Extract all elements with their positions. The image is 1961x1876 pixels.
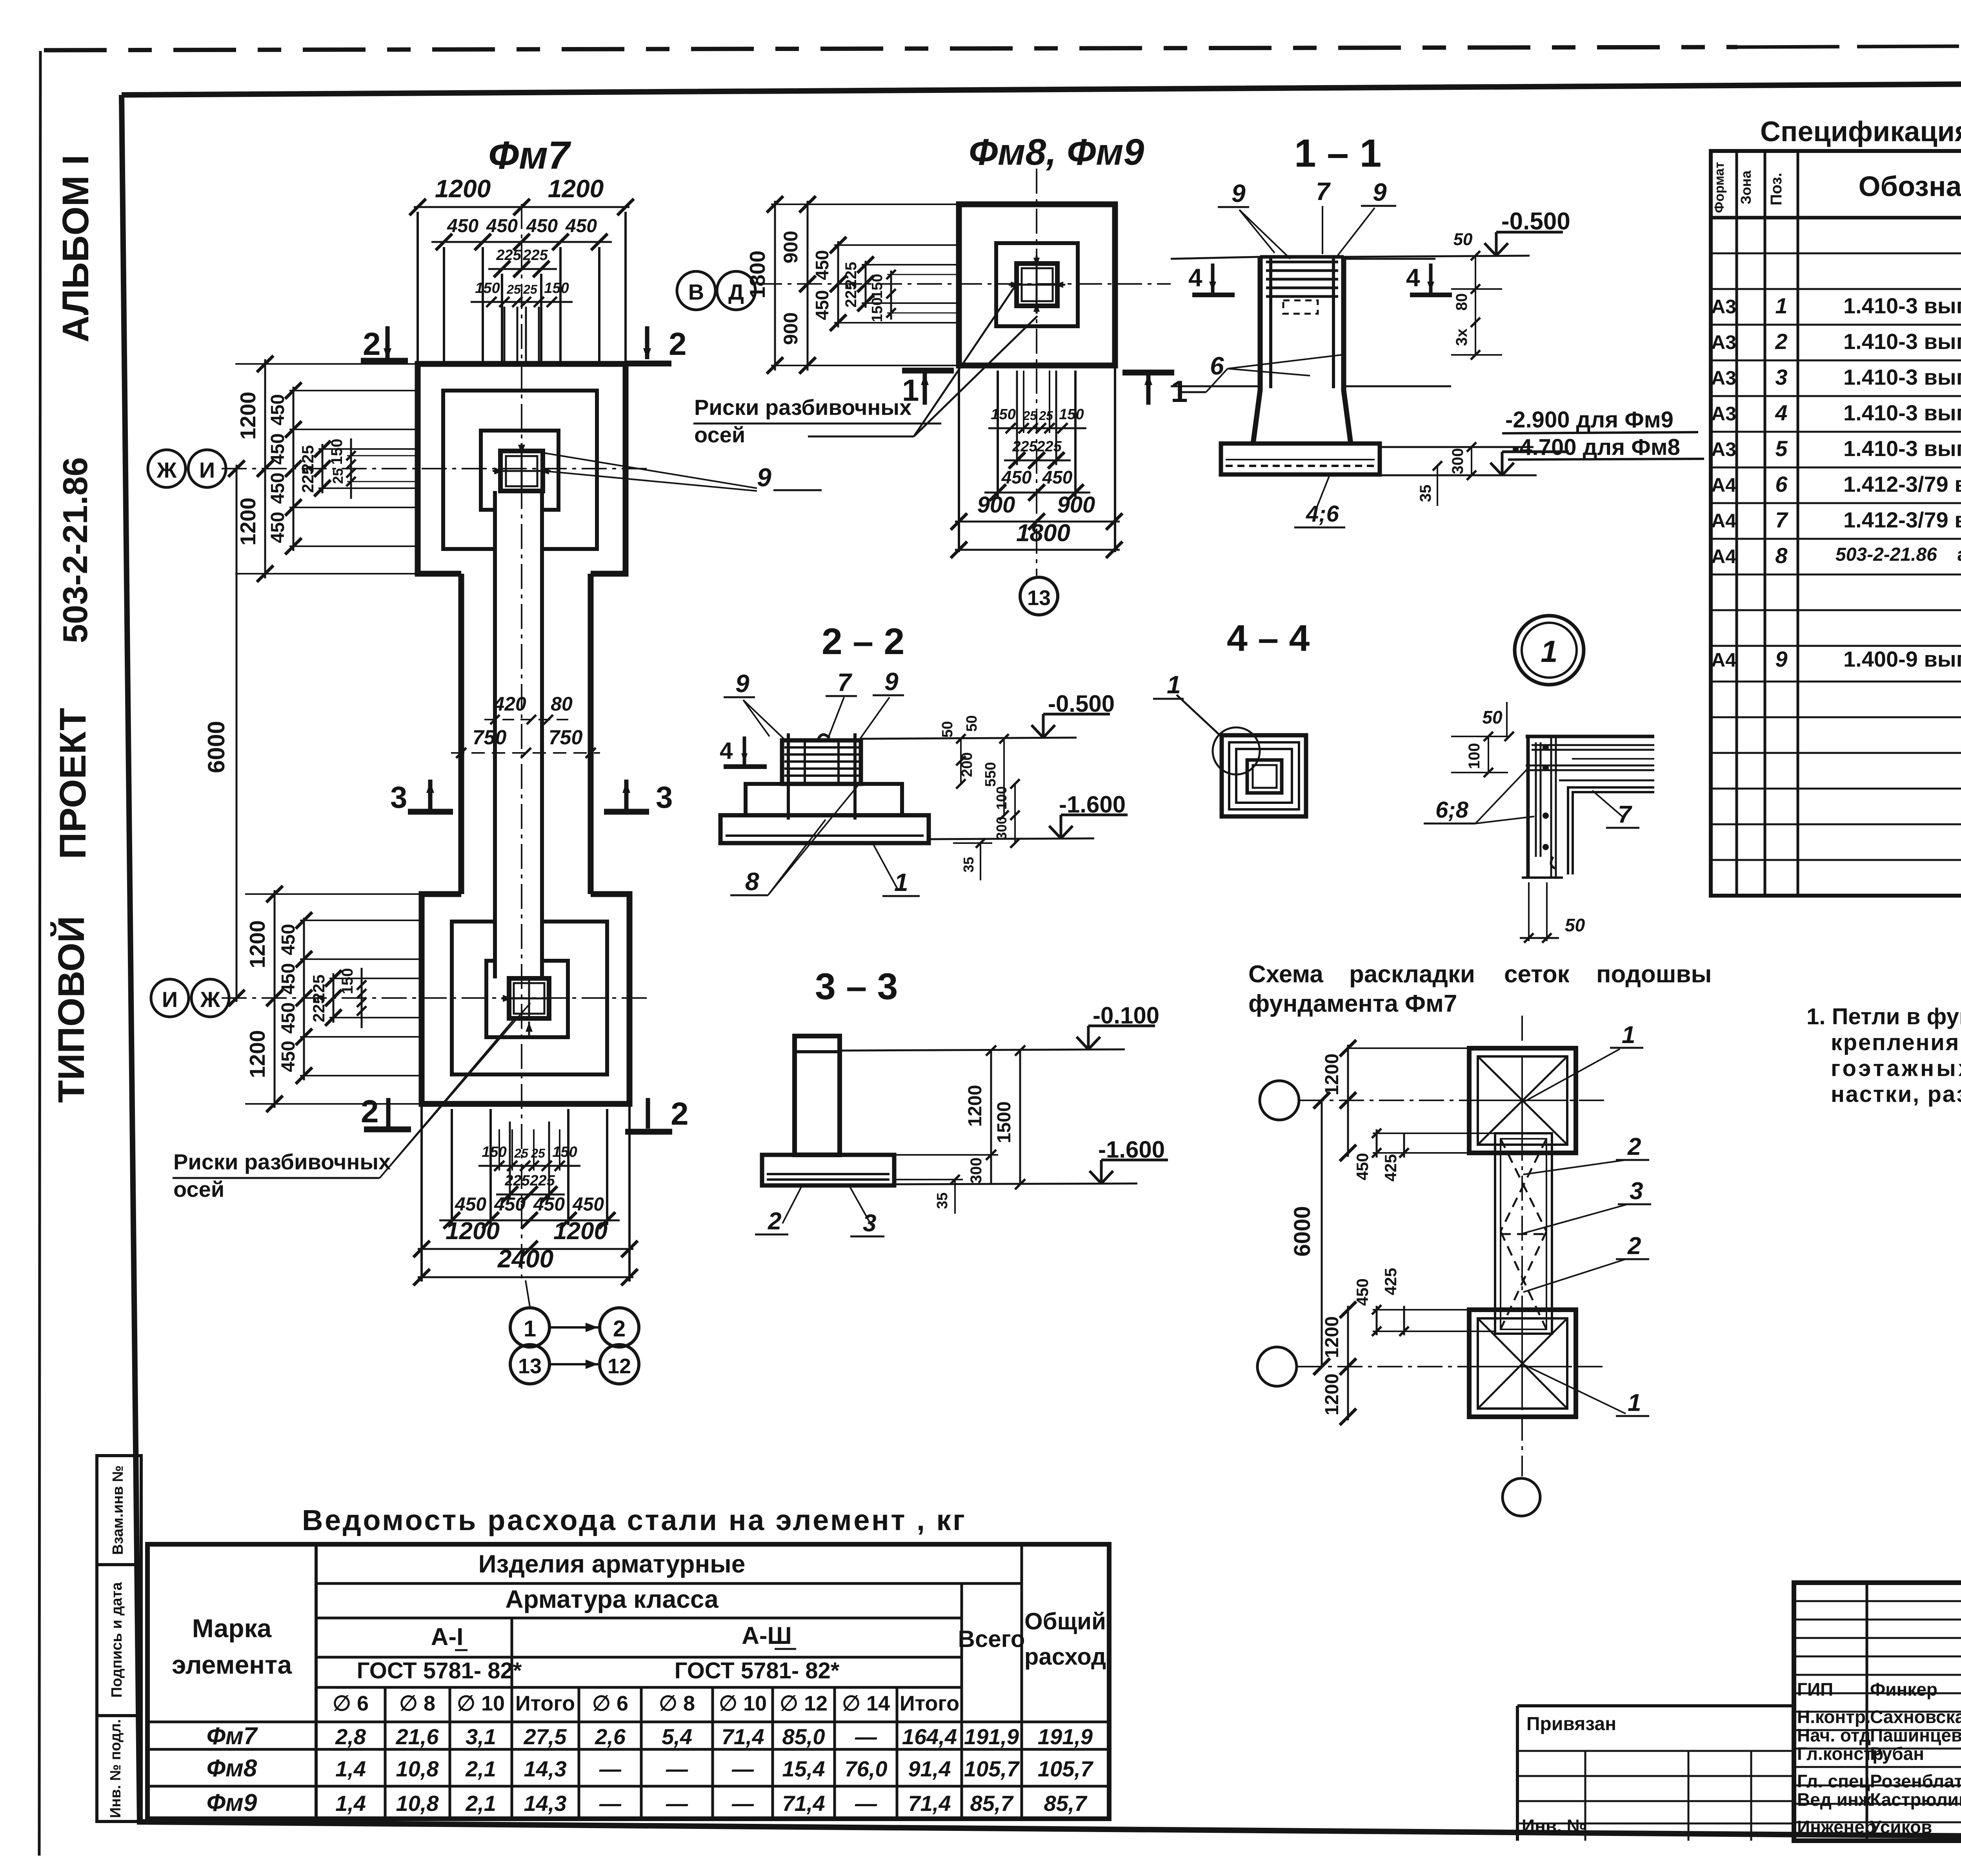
svg-text:85,0: 85,0 [782,1724,825,1749]
left dim chain 1200/1200 top pad [264,359,266,578]
axis circle И bottom [151,979,189,1017]
svg-text:9: 9 [1775,647,1787,671]
svg-text:ТИПОВОЙ: ТИПОВОЙ [50,916,92,1103]
svg-text:900: 900 [780,312,802,345]
svg-text:∅ 6: ∅ 6 [592,1692,628,1715]
svg-text:Обозначение: Обозначение [1859,171,1961,202]
ведомость header Марка элемента [315,1544,318,1819]
node 1 detail circle [1515,616,1584,685]
svg-text:3: 3 [1775,365,1787,389]
svg-text:9: 9 [735,669,749,698]
svg-text:2: 2 [1627,1133,1641,1160]
svg-text:1200: 1200 [548,175,604,203]
svg-text:450: 450 [278,924,299,955]
3-3 dim 35 [950,1175,960,1184]
margin box Подпись и дата [97,1565,141,1716]
3-3 stem outline [795,1036,840,1155]
leader to Фм8 column [808,436,914,438]
svg-text:—: — [731,1756,754,1781]
svg-text:13: 13 [518,1354,542,1378]
node 1 dim 100 left [1488,736,1489,773]
svg-text:∅ 8: ∅ 8 [399,1692,435,1715]
svg-text:А3: А3 [1711,367,1736,389]
extension lines below Фм8 pad [958,365,960,552]
svg-text:Финкер: Финкер [1870,1679,1937,1700]
svg-text:191,9: 191,9 [964,1724,1019,1749]
svg-text:Фм9: Фм9 [207,1789,257,1816]
svg-text:1.412-3/79 вып.3: 1.412-3/79 вып.3 [1843,507,1961,532]
svg-text:1: 1 [1167,671,1181,699]
svg-text:3 – 3: 3 – 3 [815,966,898,1007]
svg-text:25: 25 [514,1146,529,1160]
Фм7 bottom pad middle step [452,922,607,1074]
svg-text:—: — [855,1724,877,1749]
svg-text:50: 50 [939,721,956,738]
svg-text:осей: осей [173,1177,224,1202]
schema dim chain 1200 top [1347,1045,1349,1157]
svg-text:450: 450 [455,1194,486,1215]
svg-text:2: 2 [363,326,381,362]
2-2 elevation -1.600 [929,838,1094,839]
svg-text:15,4: 15,4 [782,1756,825,1781]
1-1 dim 3x80 right [1475,256,1476,355]
ведомость table outer [147,1544,1109,1819]
svg-text:А3: А3 [1711,403,1736,425]
2-2 bottom slab [720,815,929,843]
svg-text:750: 750 [473,726,507,749]
svg-text:-2.900 для Фм9: -2.900 для Фм9 [1505,407,1674,433]
svg-text:1500: 1500 [994,1102,1015,1143]
svg-text:8: 8 [1775,543,1788,568]
1-1 dim 35 right [1433,461,1442,471]
svg-text:2,1: 2,1 [465,1756,496,1781]
Фм7 column shaft lines [493,491,497,978]
svg-text:—: — [599,1756,622,1781]
dim 1800 below Фм8 [955,549,1120,551]
svg-text:85,7: 85,7 [1044,1791,1088,1816]
2-2 pedestal block with mesh [782,740,861,784]
specification table grid [1711,151,1961,896]
svg-text:1,4: 1,4 [335,1756,366,1781]
svg-text:ПРОЕКТ: ПРОЕКТ [52,708,94,859]
svg-text:450: 450 [267,473,288,504]
stamp left grid [1866,1583,1868,1841]
svg-text:200: 200 [959,752,975,777]
svg-text:300: 300 [1449,448,1466,474]
svg-text:100: 100 [993,786,1010,810]
svg-text:27,5: 27,5 [524,1724,567,1749]
stamp outer [1794,1583,1961,1841]
svg-text:1200: 1200 [435,175,491,203]
axis circle 13 below Фм8 [1020,577,1058,615]
svg-text:71,4: 71,4 [908,1791,951,1816]
axis link arrow 1-2 [551,1326,598,1329]
svg-text:2: 2 [613,1316,626,1342]
dim 750 750 on stem [451,752,600,754]
svg-text:2400: 2400 [497,1245,553,1273]
3-3 elevation -1.600 [896,1183,1137,1184]
svg-text:25: 25 [1022,409,1037,423]
dim 450 450 below Фм8 [984,492,1090,494]
svg-text:Спецификация: Спецификация [1760,116,1961,147]
svg-text:элемента: элемента [172,1650,292,1679]
svg-text:450: 450 [486,216,518,236]
svg-text:900: 900 [977,492,1015,518]
svg-text:1.412-3/79 вып.3: 1.412-3/79 вып.3 [1843,472,1961,496]
2-2 vertical bars [787,733,790,820]
ведомость header diameters [384,1687,387,1819]
3-3 footing outline [762,1155,894,1185]
svg-text:450: 450 [447,216,478,236]
svg-text:Подпись и дата: Подпись и дата [109,1582,125,1698]
svg-text:503-2-21.86: 503-2-21.86 [1835,544,1937,565]
svg-text:225: 225 [1012,438,1037,455]
svg-text:420: 420 [493,693,526,715]
node 1 vertical bars 6;8 [1526,736,1530,878]
extension lines from top dims to pad [417,212,419,364]
svg-text:1200: 1200 [553,1218,608,1245]
Фм8 pad axis horizontal [757,283,1171,285]
svg-text:9: 9 [757,463,771,492]
node 1 corner bar 7 [1568,787,1654,874]
1-1 dashed anchor box [1283,300,1318,314]
svg-text:А4: А4 [1711,545,1736,567]
svg-text:раскладки: раскладки [1349,961,1475,988]
svg-text:Розенблат: Розенблат [1870,1771,1961,1791]
svg-text:Н.контр.: Н.контр. [1797,1707,1871,1727]
4-4 leader to label 1 [1177,695,1223,738]
svg-text:450: 450 [812,250,832,280]
svg-text:1.410-3 вып.1: 1.410-3 вып.1 [1843,293,1961,318]
svg-text:подошвы: подошвы [1596,961,1712,988]
svg-text:Изделия арматурные: Изделия арматурные [478,1550,746,1578]
node 1 mesh horizontal lines [1526,735,1654,738]
svg-text:71,4: 71,4 [782,1791,825,1816]
svg-text:Итого: Итого [900,1692,959,1715]
svg-text:Риски разбивочных: Риски разбивочных [173,1149,391,1174]
ведомость header Арматура класса [316,1617,962,1620]
svg-text:1. Петли в фундаментах мо: 1. Петли в фундаментах монолитных предус… [1806,1004,1961,1029]
svg-text:6000: 6000 [1290,1206,1315,1256]
dim 450x4 above top pad [431,241,612,243]
svg-text:25: 25 [531,1146,546,1160]
svg-text:Ж: Ж [156,458,177,482]
1-1 dim 300 right [1471,447,1472,475]
svg-text:25: 25 [506,282,521,296]
3-3 elevation -0.100 [842,1049,1125,1051]
привязан grid [1517,1750,1794,1752]
schema axis horizontal bottom [1297,1366,1604,1367]
svg-text:Зона: Зона [1738,170,1754,204]
svg-text:АЛЬБОМ I: АЛЬБОМ I [55,155,96,343]
svg-text:В: В [688,280,704,304]
svg-text:8: 8 [745,867,759,896]
dim 1200 1200 below bottom pad [418,1248,633,1250]
schema axis circle bottom [1503,1478,1540,1516]
Фм7 bottom pad axis horizontal [222,997,651,999]
svg-text:4: 4 [720,738,733,764]
svg-text:А-Ш: А-Ш [742,1622,792,1649]
svg-text:150: 150 [552,1144,577,1160]
svg-text:3: 3 [656,780,673,814]
ведомость data rows [147,1721,1109,1723]
svg-text:крепления к ним анкерных: крепления к ним анкерных балок при монта… [1831,1030,1961,1055]
svg-text:2,6: 2,6 [595,1724,626,1749]
node 1 dim 50 top [1508,736,1508,752]
Фм7 bottom column section [509,978,549,1018]
axis circle Д [717,271,755,310]
svg-text:Усиков: Усиков [1870,1817,1932,1837]
svg-text:450: 450 [278,1041,299,1072]
1-1 mesh СН-7 in column head [1266,261,1338,264]
dim 150 25 25 150 below bottom pad [478,1165,580,1167]
section mark 3 right [604,809,649,815]
svg-text:1200: 1200 [1322,1374,1343,1416]
svg-text:50: 50 [964,715,980,732]
svg-text:1.410-3 вып.1: 1.410-3 вып.1 [1843,329,1961,354]
Фм7 bottom pad inner step [486,961,568,1037]
svg-text:25: 25 [330,468,346,484]
svg-text:∅ 6: ∅ 6 [333,1692,369,1715]
svg-text:Риски разбивочных: Риски разбивочных [694,395,911,420]
svg-text:450: 450 [812,290,832,320]
svg-text:150: 150 [328,439,346,465]
svg-text:1200: 1200 [1322,1316,1343,1358]
svg-text:1: 1 [902,373,919,407]
svg-text:1 – 1: 1 – 1 [1294,131,1381,175]
dim 225 225 below Фм8 [1004,460,1071,462]
svg-text:150: 150 [1059,406,1084,423]
schema top mesh square 1 [1469,1048,1576,1153]
svg-text:450: 450 [278,963,299,994]
svg-text:ГИП: ГИП [1797,1679,1833,1700]
axis circle Ж bottom [191,979,229,1017]
svg-text:Гл. спец.: Гл. спец. [1797,1771,1875,1791]
svg-text:13: 13 [1027,586,1051,610]
svg-text:7: 7 [1316,177,1331,205]
svg-text:450: 450 [1001,467,1032,487]
svg-text:300: 300 [993,816,1010,840]
svg-text:-0.500: -0.500 [1501,208,1570,235]
svg-text:450: 450 [1042,467,1073,487]
Фм7 bottom pad outer outline [422,894,629,1104]
svg-text:А4: А4 [1711,510,1736,532]
dim 150 25 25 150 below Фм8 [988,427,1086,429]
schema axis horizontal top [1299,1100,1604,1101]
svg-text:1.410-3 вып.1: 1.410-3 вып.1 [1843,436,1961,461]
svg-text:450: 450 [278,1002,299,1034]
schema dim 6000 [1321,1100,1323,1367]
svg-text:71,4: 71,4 [722,1724,764,1749]
svg-text:Инженер: Инженер [1797,1817,1876,1837]
svg-text:1200: 1200 [1322,1054,1343,1096]
svg-text:76,0: 76,0 [845,1756,888,1781]
svg-text:25: 25 [1039,409,1053,423]
left dim chain 150 Фм8 [890,271,892,320]
svg-text:4 – 4: 4 – 4 [1227,618,1310,659]
svg-text:ГОСТ 5781- 82*: ГОСТ 5781- 82* [675,1658,840,1683]
svg-text:900: 900 [780,231,802,263]
schema axis vertical [1521,1016,1523,1476]
svg-text:9: 9 [1232,179,1246,207]
dim 225 225 above top pad [488,268,557,270]
left extension lines bottom pad [245,893,422,895]
svg-text:3: 3 [390,780,407,814]
Фм8 column section [1017,264,1057,306]
svg-text:225: 225 [309,995,328,1022]
svg-text:1.410-3 вып.1: 1.410-3 вып.1 [1843,365,1961,389]
svg-text:гоэтажных колонн с по: гоэтажных колонн с помощью инвентарной о… [1831,1056,1961,1081]
2-2 elevation -0.500 [861,738,1077,739]
left dim chain 450x4 bottom pad [303,918,305,1080]
svg-text:альбом IV: альбом IV [1957,544,1961,565]
left extension lines top pad [235,363,418,365]
left dim chain 1800 Фм8 [774,201,776,371]
svg-text:450: 450 [572,1194,604,1215]
svg-text:∅ 12: ∅ 12 [780,1692,828,1715]
svg-text:450: 450 [1353,1278,1372,1306]
svg-text:9: 9 [884,667,899,696]
svg-text:Ведомость расхода стали: Ведомость расхода стали на элемент , кг [302,1504,965,1536]
svg-text:Ж: Ж [200,987,220,1012]
svg-text:450: 450 [267,394,288,425]
axis circle Ж top [148,450,186,487]
leaders to Фм7 bottom column [380,1020,514,1178]
svg-text:1200: 1200 [965,1085,986,1127]
svg-text:3: 3 [1630,1178,1643,1205]
Фм7 top column section [500,451,543,491]
svg-text:Марка: Марка [192,1614,272,1643]
svg-text:∅ 10: ∅ 10 [719,1692,767,1715]
3-3 dim 1200 [990,1051,992,1184]
dim 150 25 25 150 above top pad [471,301,573,303]
svg-text:ГОСТ 5781- 82*: ГОСТ 5781- 82* [357,1658,522,1683]
svg-text:300: 300 [968,1158,985,1184]
svg-text:80: 80 [551,693,573,715]
svg-text:7: 7 [837,668,853,696]
Фм7 top pad inner step [481,431,558,510]
left dim chain 225/225 Фм8 [865,261,867,308]
dim 225 225 below bottom pad [496,1194,565,1196]
svg-text:Фм7: Фм7 [488,133,571,177]
svg-text:35: 35 [960,857,977,873]
svg-text:225: 225 [1036,438,1062,455]
svg-text:550: 550 [982,762,999,787]
svg-text:Пашинцев: Пашинцев [1870,1725,1961,1745]
svg-text:—: — [666,1756,688,1781]
svg-text:1: 1 [894,868,908,896]
left dim chain 150 bottom pad [361,968,363,1028]
Фм7 top column axis risk marks [521,443,523,455]
4-4 detail circle [1213,727,1260,774]
svg-text:12: 12 [608,1354,631,1378]
svg-text:2,8: 2,8 [335,1724,366,1749]
2-2 middle step [746,784,782,815]
svg-text:Схема: Схема [1248,961,1323,988]
svg-text:А-I: А-I [431,1623,464,1651]
svg-text:900: 900 [1057,492,1095,518]
svg-text:-1.600: -1.600 [1059,791,1126,818]
ведомость header Изделия арматурные [316,1582,1022,1585]
svg-text:—: — [666,1791,688,1816]
svg-text:Итого: Итого [515,1692,575,1715]
extension lines below bottom pad [420,1104,423,1282]
svg-text:105,7: 105,7 [1038,1756,1094,1781]
Фм7 top pad middle step [443,391,597,549]
svg-text:25: 25 [523,282,538,296]
svg-text:2: 2 [671,1096,689,1132]
svg-text:150: 150 [544,280,569,296]
axis link circle 2 [600,1308,639,1347]
svg-text:Д: Д [728,280,744,304]
svg-text:191,9: 191,9 [1038,1724,1093,1749]
svg-text:4: 4 [1188,264,1202,292]
svg-text:6000: 6000 [203,721,229,773]
Фм8 pad axis vertical [1036,169,1037,576]
svg-text:21,6: 21,6 [396,1724,439,1749]
svg-text:150: 150 [991,406,1015,423]
axis link circle 13 [510,1345,549,1384]
svg-text:осей: осей [694,422,745,447]
svg-text:450: 450 [267,512,288,543]
specification row lines [1711,253,1961,254]
svg-text:150: 150 [869,274,886,298]
svg-text:225: 225 [298,465,317,493]
svg-text:А3: А3 [1711,438,1736,460]
svg-text:сеток: сеток [1504,961,1570,988]
svg-text:—: — [855,1791,877,1816]
svg-text:Взам.инв №: Взам.инв № [110,1465,126,1555]
svg-text:1.410-3 вып.1: 1.410-3 вып.1 [1843,400,1961,425]
svg-text:50: 50 [1453,230,1473,249]
svg-text:35: 35 [1417,485,1434,502]
left dim chain 150/25 top pad [350,438,352,499]
svg-text:А4: А4 [1711,649,1736,671]
dim 900 900 below Фм8 [955,521,1120,523]
axis circle В [677,271,715,310]
svg-text:225: 225 [529,1172,555,1189]
svg-text:∅ 10: ∅ 10 [457,1692,505,1715]
dim 1200 1200 above top pad [414,206,629,208]
svg-text:Сахновская: Сахновская [1870,1707,1961,1727]
svg-text:14,3: 14,3 [524,1756,567,1781]
axis circle И top [188,450,226,487]
svg-text:-0.100: -0.100 [1093,1002,1159,1029]
svg-text:50: 50 [1565,915,1585,935]
schema extension lines top [1348,1047,1469,1049]
svg-text:2: 2 [669,326,687,362]
svg-text:1800: 1800 [1016,520,1070,547]
dim 6000 left [236,465,238,1002]
svg-text:450: 450 [1353,1153,1372,1180]
svg-text:9: 9 [1373,178,1387,206]
Фм8 pad outline [959,204,1115,365]
svg-text:425: 425 [1381,1154,1400,1182]
Фм8 pad inner step [996,243,1078,326]
ведомость header ГОСТ 5781-82 [316,1686,962,1689]
svg-text:Фм8, Фм9: Фм8, Фм9 [969,131,1144,173]
svg-text:Фм8: Фм8 [207,1755,257,1782]
svg-text:150: 150 [339,968,356,994]
svg-text:503-2-21.86: 503-2-21.86 [56,457,95,644]
svg-text:450: 450 [526,216,558,236]
svg-text:4: 4 [1406,264,1420,292]
Фм7 bottom column risk marks [528,1022,530,1035]
svg-text:10,8: 10,8 [396,1756,439,1781]
svg-text:85,7: 85,7 [970,1791,1014,1816]
4-4 nested mesh squares [1222,735,1306,816]
svg-text:6;8: 6;8 [1435,797,1469,823]
